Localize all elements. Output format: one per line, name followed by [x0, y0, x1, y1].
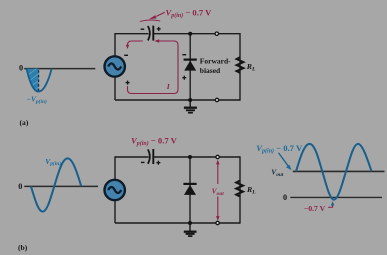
- diode D1 (figure a): [184, 60, 197, 71]
- svg-text:0: 0: [19, 64, 23, 73]
- svg-text:0: 0: [18, 182, 22, 191]
- svg-text:biased: biased: [200, 66, 221, 75]
- capacitor C left curved plate (figure b): [148, 149, 150, 163]
- diode plus label (figure a): [182, 76, 186, 80]
- svg-text:(b): (b): [18, 243, 28, 252]
- Vout arrow upper segment (figure b): [216, 160, 220, 184]
- wire right side (figure b): [239, 156, 241, 223]
- annotation arrow to capacitor C (figure a): [140, 12, 165, 21]
- source minus polarity mark (figure a): [124, 54, 128, 56]
- output -0.7V pointer arrow (figure b output): [328, 201, 334, 207]
- capacitor minus polarity (figure a): [141, 28, 145, 30]
- wire top side left of capacitor (figure b): [115, 156, 149, 158]
- resistor RL zigzag (figure b): [236, 181, 243, 197]
- diode D1 branch wire (figure b): [189, 156, 191, 223]
- output terminal top (figure a): [215, 32, 218, 35]
- junction dot bottom (figure b): [188, 221, 192, 225]
- current loop arrow top-left segment (figure a): [126, 41, 143, 49]
- wire bottom side (figure a): [115, 99, 240, 101]
- capacitor C left curved plate (figure a): [148, 26, 150, 40]
- diode D1 (figure b): [183, 184, 196, 195]
- input negative half-cycle outline (figure a): [27, 69, 52, 92]
- dashed peak marker line (figure a): [38, 70, 40, 91]
- Vout arrow lower segment (figure b): [216, 197, 220, 221]
- ground symbol (figure a): [184, 100, 197, 113]
- AC source VS (figure a): [105, 56, 125, 76]
- junction dot bottom (figure a): [188, 98, 192, 102]
- wire left side (figure b): [114, 156, 116, 223]
- wire bottom side (figure b): [115, 222, 240, 224]
- diode minus label (figure a): [182, 54, 186, 56]
- current loop arrow main path (figure a): [128, 39, 179, 93]
- wire top side (figure a): [115, 33, 149, 35]
- svg-text:−0.7 V: −0.7 V: [304, 204, 326, 213]
- svg-text:0: 0: [283, 193, 287, 202]
- capacitor C right plate (figure a): [152, 26, 154, 41]
- output terminal bottom (figure a): [215, 98, 218, 101]
- wire right side (figure a): [239, 33, 241, 101]
- AC source VS (figure b): [105, 180, 125, 200]
- capacitor plus polarity (figure b): [156, 161, 160, 165]
- resistor RL zigzag (figure a): [237, 57, 244, 72]
- junction dot top (figure a): [188, 32, 192, 36]
- capacitor minus polarity (figure b): [141, 161, 145, 163]
- output terminal bottom (figure b): [216, 221, 219, 224]
- output zero line (figure b output): [290, 196, 382, 198]
- output terminal top (figure b): [216, 155, 219, 158]
- input negative half-cycle fill (figure a): [27, 69, 39, 92]
- capacitor plus polarity (figure a): [157, 27, 161, 31]
- label Vp(in)-0.7V annotation (figure a): [166, 8, 213, 20]
- source plus polarity mark (figure a): [126, 81, 130, 85]
- junction dot top (figure b): [188, 155, 192, 159]
- wire left side (figure a): [114, 33, 116, 100]
- output label arrow (figure b output): [279, 153, 292, 171]
- svg-text:Forward-: Forward-: [200, 57, 231, 66]
- wire top side right of capacitor (figure a): [153, 33, 240, 35]
- capacitor C right plate (figure b): [152, 149, 154, 164]
- input sine wave (figure b): [31, 158, 81, 211]
- ground symbol (figure b): [184, 223, 197, 236]
- input waveform axis (figure b): [24, 185, 98, 187]
- wire top side right of capacitor (figure b): [153, 156, 240, 158]
- text Forward-biased (figure a): [200, 57, 231, 76]
- output sine wave (figure b output): [296, 144, 372, 200]
- svg-text:(a): (a): [20, 118, 29, 127]
- output average level line (figure b output): [293, 170, 385, 172]
- diode D1 branch wire (figure a): [189, 33, 191, 100]
- input waveform axis (figure a): [24, 68, 95, 70]
